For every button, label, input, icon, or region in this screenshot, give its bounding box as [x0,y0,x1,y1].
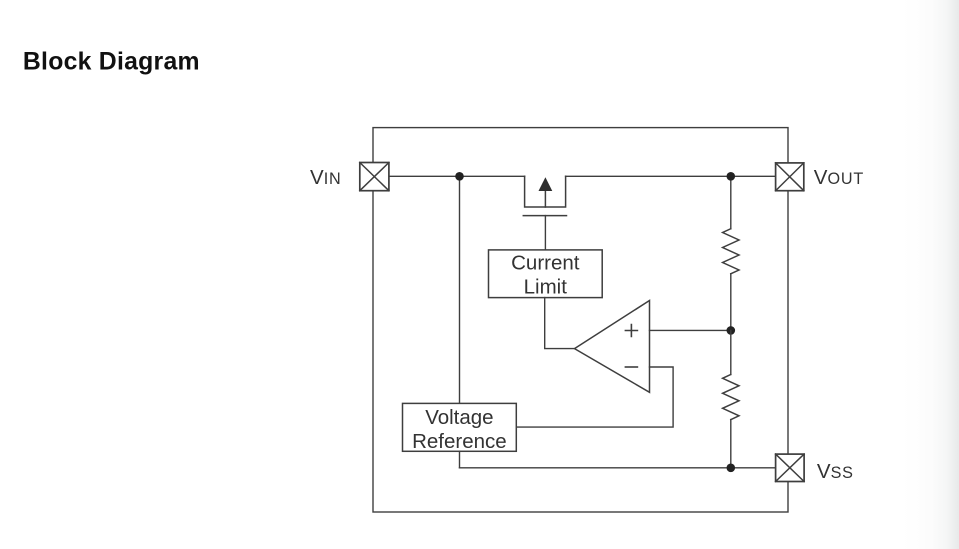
resistor R2 [723,375,739,420]
pin VOUT [776,163,804,191]
op-amp minus input marker [625,366,637,368]
svg-text:Limit: Limit [524,275,568,298]
pin VSS [776,454,805,481]
wire VIN node down to voltage reference [459,176,461,403]
wire R2 to VSS rail [730,420,732,468]
voltage reference block [403,403,517,453]
svg-text:Reference: Reference [412,430,507,453]
wire VOUT node down to resistor R1 [730,176,732,228]
wire op-amp plus input to feedback node [650,329,731,331]
wire pass transistor drain to VOUT [566,175,776,177]
junction node VIN dot [455,172,464,181]
wire VIN node to pass transistor source [389,175,525,177]
wire voltage reference to VSS rail [459,451,461,468]
wire op-amp minus input to voltage reference [516,367,673,427]
wire VSS rail [460,467,776,469]
wire feedback node to resistor R2 [730,330,732,374]
svg-text:Current: Current [511,251,580,274]
op-amp U1 [575,301,650,393]
pin VIN [360,163,389,191]
svg-text:VIN: VIN [310,166,341,189]
chip outline [373,128,788,512]
wire R1 to feedback node [730,274,732,331]
op-amp plus input marker [625,325,637,337]
resistor R1 [723,229,739,274]
junction node feedback dot [727,326,736,335]
svg-text:VOUT: VOUT [814,166,864,189]
junction node VSS dot [727,464,736,473]
svg-text:VSS: VSS [817,460,854,483]
current limit block [489,250,603,299]
junction node VOUT dot [727,172,736,181]
pass transistor Q1 [523,176,566,215]
wire current limit to op-amp output [545,298,575,349]
svg-text:Block Diagram: Block Diagram [23,48,200,75]
wire gate to current limit [544,216,546,250]
svg-text:Voltage: Voltage [425,406,493,429]
